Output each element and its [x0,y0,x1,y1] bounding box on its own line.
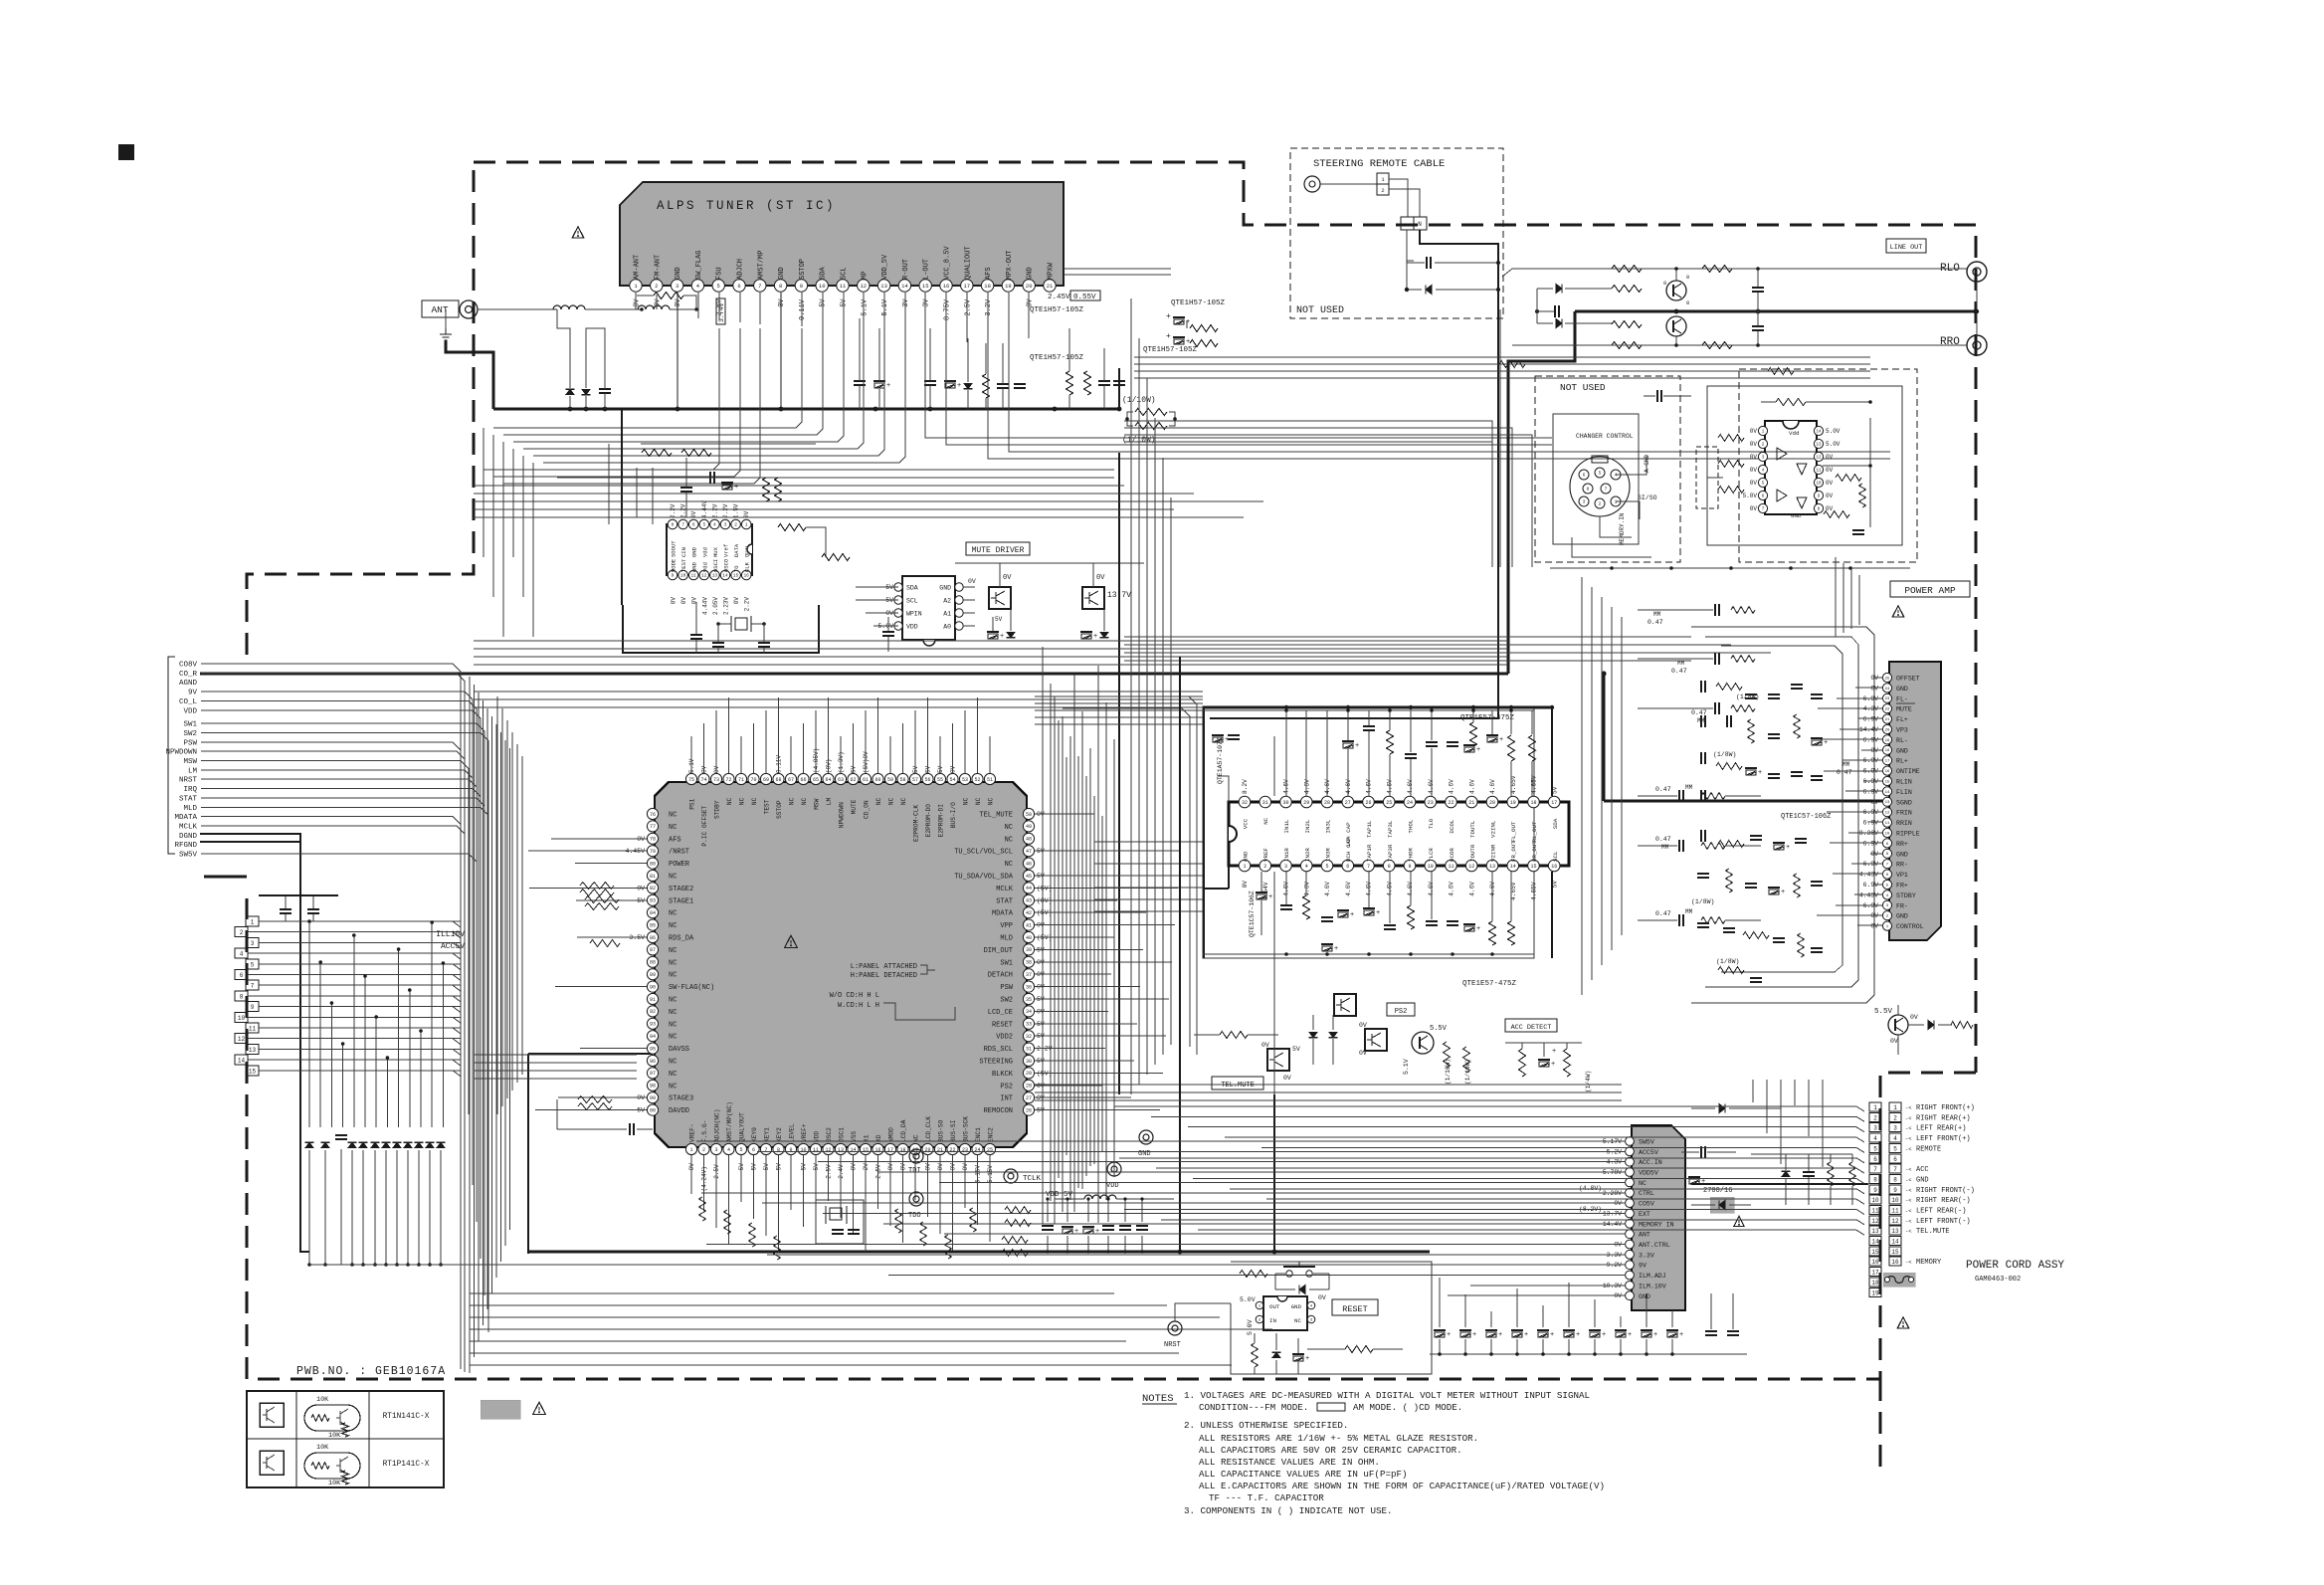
CPU right pin 40 MLD [1023,931,1034,942]
right side vertical drops [1835,557,1837,637]
svg-text:14: 14 [1891,1239,1899,1246]
svg-text:ANT.CTRL: ANT.CTRL [1639,1242,1670,1249]
svg-text:15: 15 [1891,1249,1899,1256]
svg-text:4.6V: 4.6V [1304,882,1311,896]
svg-text:82: 82 [650,886,656,892]
bus channel vertical wire [491,716,493,1293]
board entry connector 1/N [1401,217,1414,230]
DIN pin 4 [1611,470,1621,480]
svg-text:TU_SDA/VOL_SDA: TU_SDA/VOL_SDA [954,874,1014,882]
wire net CO_R [201,673,465,1111]
audio top cap4 [1447,741,1458,743]
inverter pin 9 [1814,491,1823,499]
memory top rail [1751,1153,1852,1155]
svg-text:VP1: VP1 [1896,872,1908,879]
wire CPU bottom pin [703,1155,705,1211]
svg-text:5V: 5V [751,1163,758,1171]
svg-text:+: + [734,484,738,492]
tuner resistor r2 [1066,371,1073,395]
CPU left pin 97 NC [647,1068,658,1079]
CPU left pin 98 NC [647,1080,658,1090]
audio top cap2 [1405,753,1417,755]
wire net MCLK [201,826,465,1372]
svg-text:79: 79 [650,849,656,855]
audio section bottom rail [1203,953,1534,955]
svg-text:LCD_CLK: LCD_CLK [925,1116,932,1142]
CPU right pin 26 REMOCON [1023,1104,1034,1115]
power amp capacitor [1811,693,1823,695]
svg-text:5V: 5V [1552,786,1559,794]
svg-text:Vref: Vref [723,544,730,557]
svg-text:KEY0: KEY0 [751,1127,758,1142]
svg-text:R-OUT: R-OUT [902,259,910,280]
wire CPU right pin [1035,986,1140,988]
long wire L-OUT to line amp [925,293,1552,438]
diode D5 key illumination [371,1142,379,1147]
transistor Q mute 2 box [1082,587,1104,609]
svg-text:NC: NC [669,812,677,820]
svg-text:DAVDD: DAVDD [669,1107,689,1115]
svg-text:ALL RESISTORS ARE 1/16W +- 5%: ALL RESISTORS ARE 1/16W +- 5% METAL GLAZ… [1199,1433,1478,1444]
svg-text:MM: MM [1842,761,1850,768]
power cord pin 8 inner [1869,1175,1881,1184]
DIN pin 2 [1595,498,1605,508]
power amp routing frame 1 [1721,646,1842,972]
svg-text:5V: 5V [763,1163,770,1171]
power cord pin 15 outer [1889,1247,1901,1256]
svg-text:8: 8 [1873,1177,1877,1184]
audio IC top pin 18 RL_OUT [1528,796,1540,808]
wire CPU bottom pin [765,1155,767,1236]
line out resistor R2 [1702,266,1732,273]
inverter pin 1 [1758,426,1767,435]
svg-text:QTE1E57-475Z: QTE1E57-475Z [1462,980,1517,988]
wire steering connector run [1389,179,1408,217]
svg-text:TDI: TDI [908,1167,921,1175]
wire tuner pin drop [801,293,803,326]
decoder supply caps [680,487,692,489]
svg-text:2: 2 [734,522,737,528]
svg-text:NC: NC [669,1009,677,1017]
CPU top pin 66 NC [798,773,809,784]
wire CPU bottom pin [753,1155,755,1219]
CPU top pin 61 CD_ON [860,773,871,784]
svg-text:0V: 0V [1750,454,1758,461]
DIN connector changer [1570,457,1630,516]
svg-text:QTE1H57-105Z: QTE1H57-105Z [1030,306,1084,314]
wire tuner pin drop [987,293,989,344]
main unit dashed boundary upper-left [247,162,474,655]
svg-text:60: 60 [874,777,880,783]
svg-text:10: 10 [1885,832,1890,836]
svg-text:17: 17 [1871,1270,1879,1277]
CPU bottom pin 11 VDD [810,1143,821,1154]
svg-text:3: 3 [714,1147,717,1153]
svg-text:+: + [1551,1061,1555,1069]
power cord pin 3 outer [1889,1123,1901,1132]
svg-text:NC: NC [1005,836,1013,844]
svg-text:-<: -< [1905,1135,1912,1142]
svg-text:NC: NC [669,1071,677,1079]
svg-text:16: 16 [1551,864,1557,870]
svg-text:VCC_8.5V: VCC_8.5V [944,246,952,280]
svg-text:SI/SO: SI/SO [1638,495,1657,501]
svg-text:00: 00 [650,1107,656,1113]
svg-text:W.CD:H L H: W.CD:H L H [838,1002,879,1010]
mute zener 2 [1080,631,1092,633]
wire tuner pin drop [924,293,926,338]
CPU right pin 50 TEL_MUTE [1023,808,1034,819]
CPU left pin 99 STAGE3 [647,1092,658,1103]
CPU right pin 44 MCLK [1023,883,1034,893]
CPU bottom pin 25 ENC2 [984,1143,995,1154]
svg-text:0V: 0V [701,765,708,773]
vertical bundle wire to diode row [375,1017,377,1127]
svg-text:AM MODE. ( )CD MODE.: AM MODE. ( )CD MODE. [1353,1402,1462,1413]
svg-text:20: 20 [1885,728,1890,732]
svg-text:10: 10 [1871,1197,1879,1204]
CPU top pin 64 LM [823,773,834,784]
svg-text:NC: NC [669,922,677,930]
svg-text:0V: 0V [1750,428,1758,435]
legend transistor symbol 1 [260,1403,284,1427]
svg-text:4.6V: 4.6V [1304,779,1311,794]
wire CPU bottom pin [728,1155,730,1245]
svg-text:5.0V: 5.0V [1826,428,1840,435]
CPU top pin 67 NC [785,773,796,784]
svg-text:MLD: MLD [183,805,197,813]
svg-text:0V: 0V [1359,1022,1367,1029]
svg-text:0.47: 0.47 [1691,709,1707,716]
wire left connector pin 8 [248,996,461,1002]
svg-text:+: + [1758,769,1762,777]
power amp resistor [1748,719,1755,743]
resistor CPU stage [585,903,619,910]
power cord pin 4 outer [1889,1133,1901,1142]
acc transistor [1412,1032,1434,1054]
svg-text:20: 20 [1026,283,1033,290]
svg-text:0V: 0V [968,578,976,585]
svg-text:OSC2: OSC2 [826,1127,833,1142]
left connector pin 2 [235,927,248,937]
svg-text:96: 96 [650,1059,656,1065]
svg-text:28: 28 [1026,1084,1032,1090]
svg-text:GND: GND [1896,686,1908,693]
mute IC left pin VDD [894,622,902,630]
svg-text:5V: 5V [925,765,932,773]
power cord pin 19 inner [1869,1288,1881,1296]
audio IC bottom pin 12 TOUTR [1465,860,1477,872]
power cord pin 5 inner [1869,1143,1881,1152]
svg-text:RDS_DA: RDS_DA [669,935,694,943]
harness pin CO5V [1626,1199,1635,1208]
wire left connector pin 13 [259,1049,461,1055]
memory res 2 [1849,1162,1856,1186]
tuner decoupling capacitor c3 [924,380,936,382]
bold bus lower [528,1251,1430,1254]
power amp pin 20 VP3 [1882,724,1891,733]
power amp resistor [1718,841,1744,848]
svg-text:5: 5 [251,961,255,968]
left connector pin 13 [246,1044,259,1054]
svg-text:47: 47 [1026,849,1032,855]
DIN pin 1 [1611,496,1621,506]
svg-text:81: 81 [650,874,656,880]
svg-text:IN1L: IN1L [1283,819,1290,833]
CPU top pin 55 E2PROM-DI [934,773,945,784]
svg-text:3. COMPONENTS IN ( ) INDICAT: 3. COMPONENTS IN ( ) INDICATE NOT USE. [1184,1505,1393,1516]
svg-text:59: 59 [887,777,893,783]
long wire MPX run [1009,293,1890,452]
wire CPU right pin [1035,1060,1134,1062]
svg-text:-<: -< [1905,1177,1912,1184]
cap near DAVDD [629,1123,631,1135]
wire CPU top pin [815,710,817,773]
svg-text:STAT: STAT [179,795,198,803]
audio IC top pin 24 THOL [1404,796,1416,808]
wire tuner pin drop [904,293,906,336]
audio top cap3 [1426,741,1438,743]
svg-text:33: 33 [1026,1022,1032,1028]
svg-text:GND: GND [778,267,786,280]
CPU bottom pin 19 NC [909,1143,920,1154]
svg-text:52: 52 [974,777,980,783]
svg-text:2700/16: 2700/16 [1703,1187,1732,1195]
inverter pin 10 [1814,478,1823,487]
wire left connector pin 12 [248,1039,461,1045]
wire CPU left pin [575,863,647,865]
wire CPU top pin [790,736,792,773]
wire to FM-ANT pin [670,308,696,310]
tuner detector diode [964,383,972,388]
svg-text:4.6V: 4.6V [1324,779,1331,794]
power cord pin 11 inner [1869,1206,1881,1215]
svg-text:8: 8 [1893,1177,1897,1184]
svg-text:NC: NC [900,797,907,805]
svg-text:15: 15 [1885,780,1890,784]
svg-text:15: 15 [1530,864,1536,870]
wire left connector pin 3 [259,942,461,948]
CPU left pin 77 NC [647,821,658,832]
svg-text:12: 12 [860,283,867,290]
svg-text:A1: A1 [943,611,951,618]
bus channel vertical wire [474,685,476,1357]
bus channel vertical wire [509,748,511,1230]
svg-text:5V: 5V [801,1163,808,1171]
svg-text:NC: NC [669,947,677,955]
harness connector body [1632,1125,1685,1310]
power amp capacitor [1811,947,1823,949]
svg-text:LEVEL: LEVEL [789,1123,796,1142]
reset rc resistor [1345,1346,1373,1353]
power cord pin 18 inner [1869,1278,1881,1287]
wire CPU bottom pin [877,1155,879,1209]
bulk capacitor bank [1042,1225,1054,1227]
wire CPU left pin [558,1096,647,1098]
page corner marker square [118,144,134,160]
wire CPU to audio bus [1094,898,1203,900]
bus channel vertical wire 2 [511,732,513,1090]
CPU top pin 53 NC [959,773,970,784]
svg-text:RRO: RRO [1940,336,1960,348]
svg-text:4.3V: 4.3V [1863,705,1879,712]
power amp feed wires [1874,677,1882,679]
power amp pin 8 GND [1882,849,1891,858]
RDS decoder bottom pin 13 OSCI [710,570,720,580]
svg-text:ADJCH(NC): ADJCH(NC) [714,1109,721,1142]
CPU left pin 90 SW-FLAG(NC) [647,981,658,992]
svg-text:42: 42 [1026,910,1032,916]
wire net SW5V [201,854,477,1154]
svg-text:83: 83 [650,898,656,904]
svg-text:GND: GND [939,585,951,592]
CPU bottom pin 17 NMOD [884,1143,895,1154]
svg-text:FL+: FL+ [1896,716,1908,723]
power amp pin 2 GND [1882,911,1891,920]
audio IC top pin 21 TOUTL [1465,796,1477,808]
wire CPU bottom pin [989,1155,991,1242]
svg-text:20: 20 [924,1147,930,1153]
diode D3 key illumination [348,1142,356,1147]
acc detect ecap [1538,1059,1550,1061]
svg-text:+: + [1074,1228,1078,1236]
power amp pin 21 FL+ [1882,714,1891,723]
power amp pin 18 GND [1882,745,1891,754]
audio IC bottom pin 15 RR_OUT [1528,860,1540,872]
svg-text:4: 4 [727,1147,730,1153]
svg-text:7: 7 [681,522,684,528]
CPU bottom pin 7 KEY1 [760,1143,771,1154]
svg-text:65: 65 [813,777,819,783]
svg-text:VDD_5V: VDD_5V [881,254,889,280]
svg-text:ACC.IN: ACC.IN [1639,1159,1662,1166]
warning triangle power amp [1892,606,1904,617]
svg-text:10K: 10K [316,1444,329,1452]
svg-text:OUT: OUT [1269,1303,1280,1310]
svg-text:-<: -< [1905,1228,1912,1235]
svg-text:0V: 0V [887,1163,894,1171]
svg-text:2.2V: 2.2V [744,597,751,612]
antenna ground trace bold [446,340,493,409]
power inductor [1084,1195,1116,1199]
svg-text:LCD_DA: LCD_DA [900,1119,907,1142]
svg-text:3.2V: 3.2V [985,298,993,316]
tuner resistor r3 [1084,371,1091,395]
crystal load capacitor 2 [758,642,770,644]
ANT label box [422,300,459,317]
wires mute IC [856,586,898,588]
svg-text:0.47: 0.47 [1655,786,1671,793]
audio IC bottom pin 5 IN3R [1321,860,1333,872]
svg-text:14: 14 [722,573,728,579]
svg-text:MCLK: MCLK [179,824,198,832]
svg-text:13: 13 [880,283,887,290]
svg-text:V2INL: V2INL [1490,820,1497,838]
audio IC bottom pin 13 V2INR [1486,860,1498,872]
left connector pin 11 [246,1023,259,1033]
audio IC bottom pin 2 VREF [1259,860,1271,872]
reset pushbutton [1286,1271,1292,1277]
RESET label box [1332,1299,1378,1315]
wire tuner pin drop [863,293,865,332]
CPU right pin 42 MDATA [1023,907,1034,918]
DIN pin 3 [1579,496,1589,506]
svg-text:25: 25 [987,1147,993,1153]
svg-text:13: 13 [1816,444,1822,448]
CPU bottom pin 8 KEY2 [773,1143,784,1154]
svg-text:17: 17 [887,1147,893,1153]
svg-text:1. VOLTAGES ARE DC-MEASURED W: 1. VOLTAGES ARE DC-MEASURED WITH A DIGIT… [1184,1390,1590,1401]
power amp pin 5 FR+ [1882,880,1891,889]
svg-text:VDD: VDD [814,1131,821,1142]
svg-text:30: 30 [1282,800,1288,806]
wire tuner pin drop [718,293,720,320]
CPU right pin 49 NC [1023,821,1034,832]
svg-text:25: 25 [1885,677,1890,681]
chamfer frame right of CPU [1055,696,1197,1055]
svg-text:0V: 0V [950,765,957,773]
svg-text:92: 92 [650,1009,656,1015]
svg-text:RL-: RL- [1896,737,1908,744]
svg-text:25: 25 [1386,800,1392,806]
CPU right pin 29 BLKCK [1023,1068,1034,1079]
wire CPU top pin [964,710,966,773]
CPU bottom crystal caps [832,1229,844,1231]
svg-text:MUTE DRIVER: MUTE DRIVER [972,546,1025,555]
svg-text:GAM0463-002: GAM0463-002 [1975,1276,2021,1284]
RDS decoder bottom pin 10 TEST [678,570,688,580]
CPU bottom pin 3 ADJCH(NC) [710,1143,721,1154]
svg-text:SW1: SW1 [1000,959,1013,967]
power cord pin 9 inner [1869,1185,1881,1194]
wire CPU top pin [865,710,867,773]
svg-text:15: 15 [733,573,739,579]
svg-text:STEERING REMOTE CABLE: STEERING REMOTE CABLE [1313,158,1445,170]
svg-text:(5V)0V: (5V)0V [863,751,870,773]
svg-text:WPIN: WPIN [906,611,922,618]
wire CPU right pin [1035,924,1175,926]
svg-text:9V: 9V [1639,1263,1646,1270]
power cord pin 13 inner [1869,1226,1881,1235]
harness pin MEMORY IN [1626,1219,1635,1228]
svg-text:0V: 0V [851,1163,858,1171]
svg-text:2: 2 [1381,187,1384,194]
wire CPU top pin [977,697,979,773]
wire CPU right pin [1035,813,1094,815]
svg-text:0V: 0V [778,298,786,307]
svg-text:LEFT REAR(+): LEFT REAR(+) [1916,1125,1966,1133]
svg-text:98: 98 [650,1084,656,1090]
electrolytic cap bank C5 [1537,1329,1549,1331]
svg-text:AMST/MP(NC): AMST/MP(NC) [726,1101,733,1142]
wire CPU top pin [853,723,855,773]
inverter resistor right 1 [1836,475,1861,482]
svg-text:VP3: VP3 [1896,727,1908,734]
wires decoder area [636,468,638,517]
CPU left pin 84 NC [647,907,658,918]
changer control dashed box [1535,376,1680,562]
diode D8 key illumination [404,1142,412,1147]
svg-text:RIGHT FRONT(+): RIGHT FRONT(+) [1916,1104,1975,1112]
CPU bottom pin 20 LCD_CLK [922,1143,933,1154]
svg-text:RR-: RR- [1896,862,1908,869]
svg-text:IN2R: IN2R [1304,848,1311,862]
steering remote cable dashed box [1290,148,1503,318]
wire net IRQ [201,789,481,1225]
wire CPU top pin [902,723,904,773]
wire AM-ANT drop [635,293,637,309]
RDS decoder notch [747,544,752,554]
